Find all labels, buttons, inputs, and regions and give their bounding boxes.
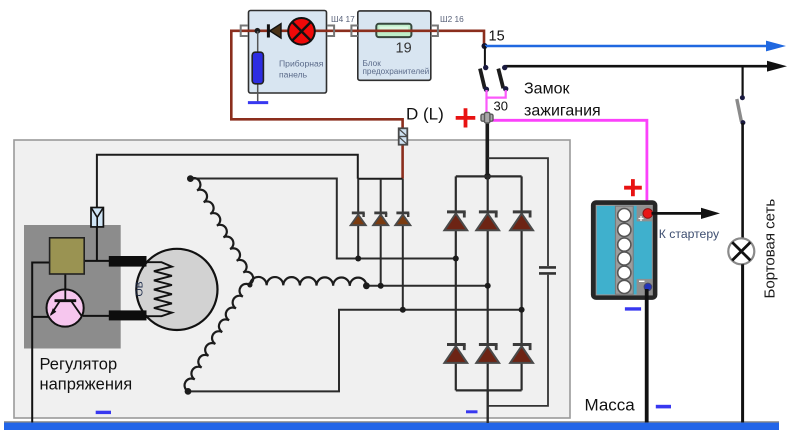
diode VD2 (bridge top middle)	[476, 212, 499, 230]
rotor field winding OB zigzag	[147, 262, 172, 316]
wire: resistor stem lower to ground	[257, 84, 259, 102]
capacitor C	[539, 267, 556, 273]
svg-text:30: 30	[494, 99, 508, 114]
arrow to starter	[652, 208, 721, 219]
connector bracket fuse left	[351, 26, 357, 37]
lamp switch	[737, 95, 746, 125]
node phase1-fieldD1	[355, 256, 361, 262]
wire: regulator ground to chassis	[32, 263, 49, 423]
svg-text:Замок: Замок	[524, 81, 570, 98]
connector D(L) on housing	[399, 128, 408, 144]
wire: zener drop to regulator output	[96, 227, 98, 261]
wire: field diode leg 1	[357, 179, 359, 259]
fuse 19	[376, 24, 411, 37]
brush lower	[109, 310, 147, 320]
battery plus terminal	[643, 209, 653, 219]
regulator IC (khaki block)	[50, 238, 85, 274]
svg-text:Масса: Масса	[585, 396, 636, 415]
terminal block 30	[481, 112, 493, 123]
rotor	[136, 249, 217, 330]
wire: magenta link between switch outputs (terminal 30)	[487, 90, 506, 98]
svg-text:зажигания: зажигания	[524, 103, 601, 120]
diode VD3 (bridge top right)	[510, 212, 533, 230]
node panel wire junction	[255, 28, 261, 34]
wire: field rectifier feed to regulator	[97, 155, 358, 208]
ignition switch contact 2	[498, 65, 508, 92]
wire: stator phase 3 to rectifier	[188, 310, 522, 392]
field diode D1	[351, 213, 366, 225]
arrowhead black wire	[767, 61, 787, 72]
rectifier B+ junction	[484, 173, 491, 180]
svg-text:предохранителей: предохранителей	[363, 67, 430, 76]
battery minus terminal	[644, 283, 652, 291]
diode VD (panel)	[268, 24, 281, 38]
svg-text:К стартеру: К стартеру	[659, 227, 720, 241]
wire: thick black B+ drop from terminal 30 to rectifier	[485, 121, 489, 176]
node 15 junction	[482, 43, 488, 49]
alternator housing	[14, 140, 570, 418]
wire: capacitor bottom return	[488, 275, 548, 406]
ignition switch contact 1 (Замок зажигания)	[480, 65, 489, 92]
ground minus mark near rectifier	[466, 410, 478, 413]
node stator phase1 terminal	[187, 175, 194, 182]
field diode D3	[395, 213, 410, 225]
connector bracket fuse right	[431, 26, 438, 37]
wire: resistor stem upper	[257, 31, 259, 52]
svg-text:панель: панель	[279, 70, 308, 80]
zener diode component	[91, 208, 103, 227]
connector bracket panel left	[241, 26, 248, 37]
node stator phase2 terminal	[363, 282, 370, 289]
svg-text:ОВ: ОВ	[134, 281, 146, 296]
svg-text:Ш2 16: Ш2 16	[440, 14, 464, 24]
node phase3-fieldD3	[400, 307, 406, 313]
wire: switch to lamp	[741, 123, 744, 239]
node stator star point	[247, 282, 252, 287]
node phase2-fieldD2	[378, 283, 384, 289]
ground minus mark under regulator	[96, 411, 111, 414]
wire: black bus from ignition switch to board net	[505, 65, 769, 68]
stator winding phase 1 (upper)	[190, 178, 253, 284]
svg-text:Регулятор: Регулятор	[40, 356, 118, 374]
wire: rectifier right leg	[520, 176, 522, 390]
wire: transistor emitter to ground wire	[32, 316, 49, 318]
ground minus mark under battery	[625, 307, 641, 310]
wire: rectifier top bus	[456, 175, 522, 177]
wire: magenta from terminal 30 to battery plus	[492, 120, 647, 209]
wire: capacitor branch from B+	[488, 158, 548, 266]
stator winding phase 2 (middle)	[250, 277, 366, 286]
wire: field rectifier bus	[358, 178, 403, 180]
wire: rectifier middle leg	[487, 176, 489, 390]
svg-text:19: 19	[396, 41, 412, 57]
chassis ground bus (Масса)	[4, 421, 779, 430]
diode VD1 (bridge top left)	[444, 212, 467, 230]
field diode D2	[373, 213, 388, 225]
red plus at D(L)	[456, 108, 476, 127]
voltage regulator box	[24, 225, 121, 349]
svg-text:Ш4 17: Ш4 17	[331, 14, 355, 24]
diode VD5 (bridge bottom middle)	[476, 345, 499, 363]
svg-text:Приборная: Приборная	[279, 59, 324, 69]
node phase1-bridge	[453, 256, 459, 262]
resistor R (panel)	[252, 52, 263, 84]
wire: blue feed to board net (terminal 15)	[485, 45, 768, 48]
ground minus mark under panel	[248, 101, 268, 104]
fuse box	[358, 11, 431, 80]
wire: node 15 down to ignition switch contact	[484, 46, 486, 68]
wire: transistor collector to lower brush	[83, 315, 110, 317]
node stator phase3 terminal	[185, 388, 192, 395]
wire: lamp to chassis	[741, 264, 744, 422]
diode VD6 (bridge bottom right)	[510, 345, 533, 363]
instrument panel box	[249, 11, 327, 94]
wire: brown excitation wire from instrument panel to D(L) terminal	[231, 31, 484, 179]
indicator lamp (panel)	[288, 18, 315, 45]
wire: regulator output to upper brush	[84, 260, 110, 262]
wire: rectifier left leg	[455, 176, 457, 390]
arrowhead blue wire	[766, 41, 786, 52]
wire: rectifier minus to chassis	[487, 390, 489, 423]
wire: field diode leg 3	[402, 179, 404, 310]
brush upper	[109, 256, 147, 267]
node phase2-bridge	[485, 283, 491, 289]
wire: battery minus to chassis	[645, 289, 649, 423]
wire: rectifier bottom bus	[456, 389, 522, 391]
svg-text:D (L): D (L)	[406, 105, 444, 124]
wire: regulator IC base lead to transistor	[64, 274, 66, 290]
connector bracket panel right	[327, 26, 334, 37]
svg-text:15: 15	[489, 29, 505, 45]
diode VD4 (bridge bottom left)	[444, 345, 467, 363]
svg-text:Бортовая сеть: Бортовая сеть	[762, 199, 779, 299]
wire: field diode leg 2	[380, 179, 382, 286]
svg-text:напряжения: напряжения	[40, 376, 133, 394]
wire: stator phase 2 to rectifier	[366, 285, 487, 287]
battery GB	[591, 200, 658, 300]
red plus above battery	[624, 179, 642, 196]
node phase3-bridge	[519, 307, 525, 313]
transistor Q1	[47, 289, 84, 326]
ground minus mark near Масса wire	[656, 405, 671, 409]
lamp Бортовая сеть	[728, 238, 754, 264]
wire: magenta down to terminal block 30	[485, 98, 487, 114]
wire: stator phase 1 to rectifier	[190, 179, 455, 259]
wire: lamp branch from black bus	[741, 66, 743, 98]
stator winding phase 3 (lower)	[185, 284, 250, 391]
